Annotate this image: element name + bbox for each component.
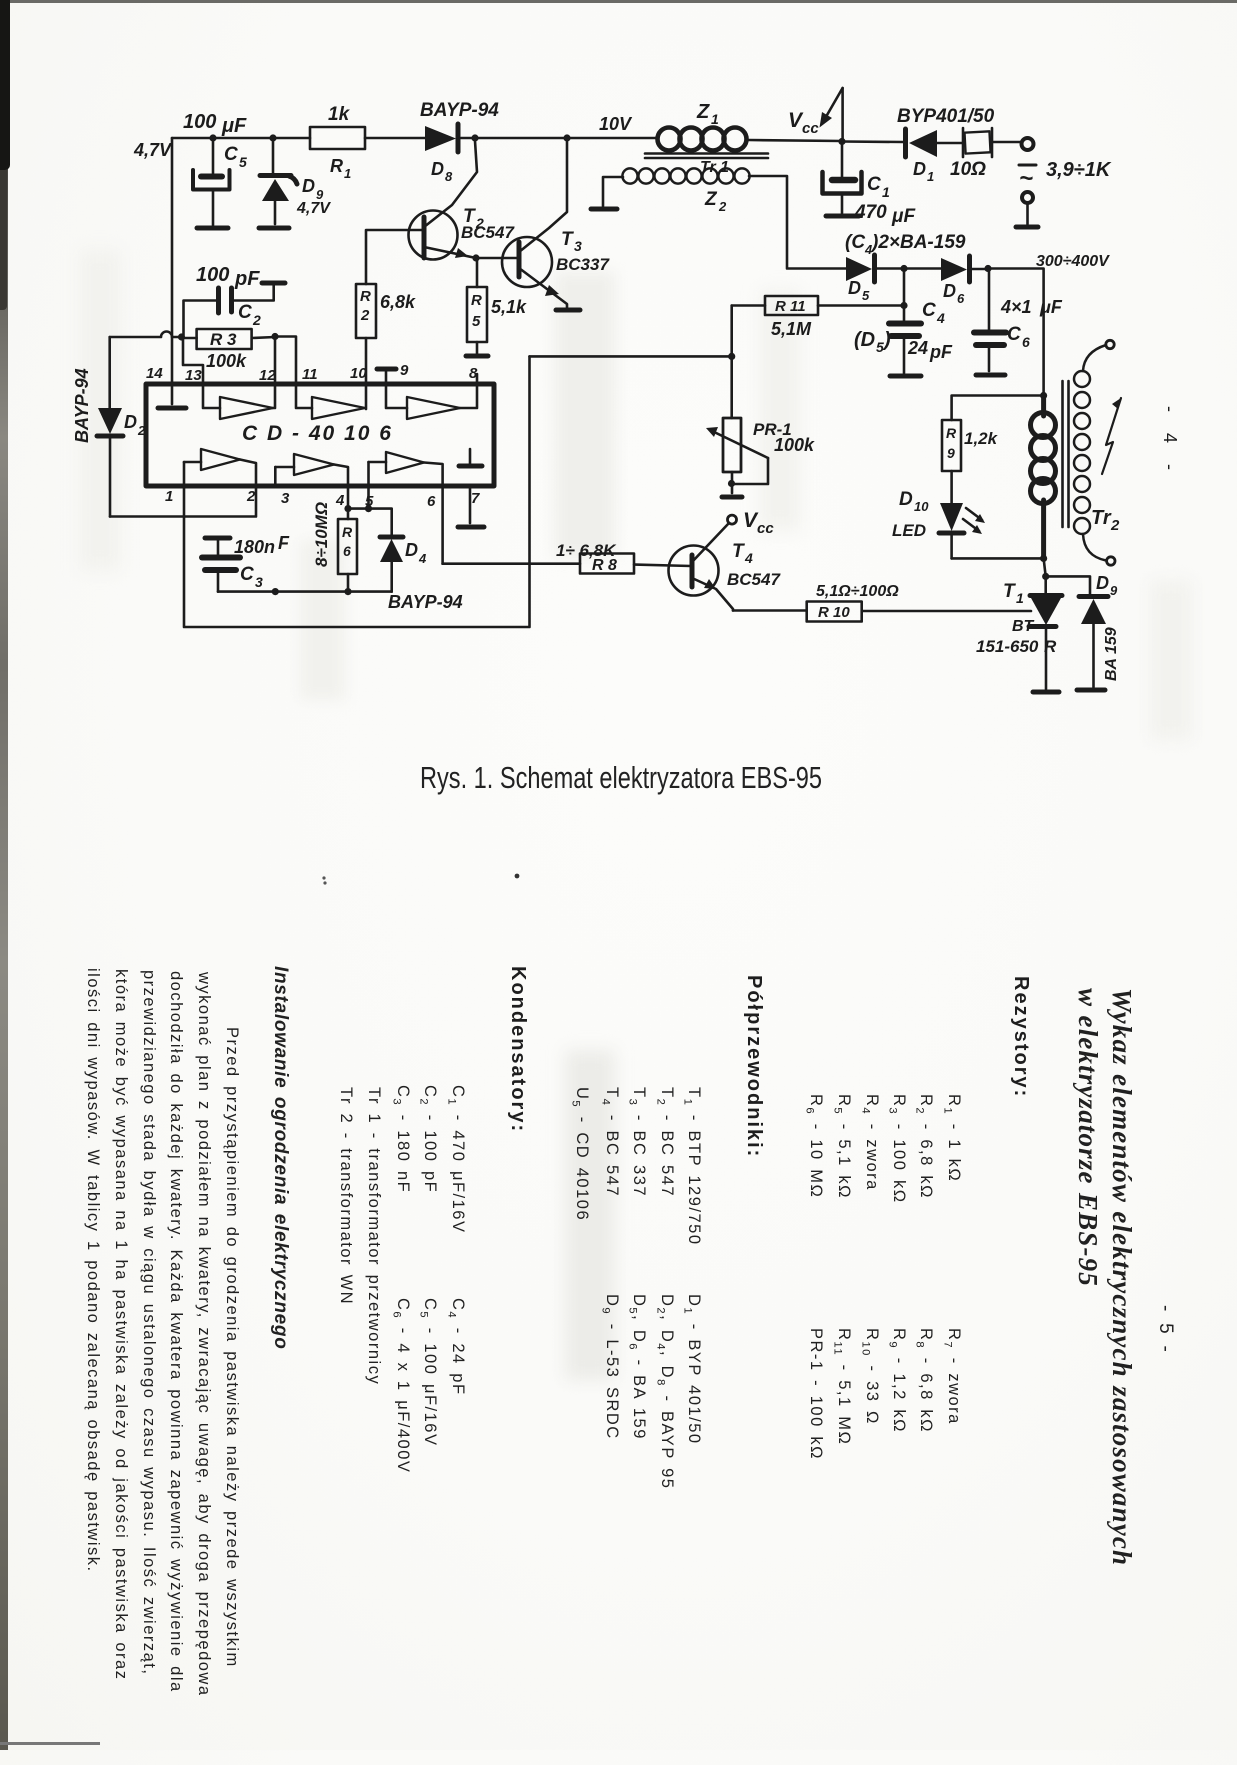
resistor R11 5.1M — [732, 296, 904, 339]
svg-text:C: C — [867, 174, 881, 195]
node D5 cathode — [900, 265, 907, 272]
wire 10V supply rail — [172, 137, 658, 140]
node T2 emitter / T3 base / R5 — [472, 254, 479, 261]
svg-text:5,1k: 5,1k — [491, 297, 527, 317]
resistor R6 8-10M — [338, 486, 357, 592]
wire L1 to Vcc node to D1 — [749, 140, 903, 142]
node R11 left / feedback junction — [728, 353, 735, 360]
svg-text:D: D — [124, 412, 137, 432]
pin 7 internal tie-off — [459, 449, 482, 466]
svg-text:pF: pF — [234, 268, 260, 290]
ground under Z2 — [591, 207, 617, 212]
svg-text:T: T — [732, 541, 745, 562]
svg-text:(C: (C — [845, 232, 865, 253]
ground under PR-1 — [722, 495, 742, 500]
svg-text:3: 3 — [281, 490, 290, 507]
svg-text:2: 2 — [718, 199, 727, 214]
svg-text:180n: 180n — [234, 537, 275, 557]
ground pin-14 internal bar — [158, 406, 186, 411]
D9 value BA 159 (rotated) — [1103, 627, 1120, 681]
node R11/C4 — [900, 302, 907, 309]
inductor Tr1 secondary Z2 — [622, 168, 749, 183]
resistor R9 1.2k — [942, 420, 999, 503]
diode D8 BAYP-94 — [420, 100, 499, 184]
pin 9 stub with tie-off bar — [377, 369, 396, 384]
svg-text:5,1M: 5,1M — [771, 319, 812, 339]
svg-text:R: R — [342, 524, 353, 540]
svg-text:300÷400V: 300÷400V — [1036, 253, 1110, 270]
node output terminal upper — [1022, 138, 1034, 150]
svg-text:Tr: Tr — [1091, 507, 1112, 529]
svg-text:10: 10 — [350, 365, 367, 382]
inverter gate B (pins 11-10) — [296, 384, 365, 419]
svg-text:C: C — [238, 302, 252, 323]
svg-text:2: 2 — [137, 423, 146, 438]
svg-text:Z: Z — [696, 101, 710, 123]
svg-text:1: 1 — [344, 166, 351, 181]
svg-text:D: D — [913, 159, 926, 179]
svg-text:2: 2 — [360, 307, 370, 324]
svg-text:D: D — [899, 489, 913, 510]
node Tr2 primary bottom — [1040, 555, 1047, 562]
svg-text:5: 5 — [239, 154, 247, 170]
svg-text:D: D — [1096, 573, 1109, 593]
resistor R8 1-6.8k — [443, 486, 691, 574]
diode D9 BA159 (freewheel) — [1079, 573, 1118, 687]
node HV terminal upper — [1106, 340, 1114, 348]
inverter gate F (pins 5-6) — [369, 452, 443, 486]
svg-text:BAYP-94: BAYP-94 — [72, 368, 92, 443]
svg-text:BT: BT — [1012, 618, 1035, 635]
svg-text:3: 3 — [255, 574, 263, 590]
svg-text:BA 159: BA 159 — [1103, 627, 1120, 681]
node pin4/R6 top — [344, 505, 351, 512]
diode D9 zener 4.7V — [260, 138, 331, 224]
stray ink dots — [515, 874, 520, 879]
svg-text:C: C — [224, 144, 238, 165]
svg-text:6: 6 — [957, 291, 965, 306]
diode D5 BA-159 — [846, 255, 904, 303]
svg-text:3: 3 — [574, 238, 582, 254]
node output terminal lower — [1022, 192, 1033, 224]
svg-text:1,2k: 1,2k — [964, 429, 999, 448]
ground under pin 7 — [458, 525, 484, 530]
svg-text:10: 10 — [914, 499, 929, 514]
svg-text:cc: cc — [757, 520, 774, 537]
svg-text:T: T — [1003, 581, 1016, 602]
svg-text:8: 8 — [445, 169, 453, 184]
svg-text:R 11: R 11 — [775, 298, 806, 315]
svg-text:2: 2 — [252, 312, 261, 328]
wire D6 to HV corner — [988, 269, 1044, 396]
diode D4 BAYP-94 — [380, 537, 427, 592]
wire Z2 left to ground — [603, 177, 623, 206]
inverter gate A (pins 13-12) — [203, 384, 275, 419]
AC mark — [1019, 165, 1036, 192]
svg-text:1: 1 — [927, 169, 934, 184]
wire VDD left vertical to IC pin 14 — [171, 138, 174, 404]
svg-text:): ) — [882, 329, 891, 351]
ground under T3 emitter — [556, 308, 580, 313]
LED D10 — [892, 489, 985, 558]
svg-text:10V: 10V — [599, 114, 633, 134]
svg-text:R 3: R 3 — [210, 330, 237, 349]
capacitor C3 180nF — [202, 533, 290, 592]
capacitor C1 470uF — [823, 142, 917, 228]
svg-text:D: D — [302, 176, 315, 196]
wire node to IC pin 13 jog — [183, 338, 203, 384]
svg-text:BC337: BC337 — [556, 255, 610, 274]
svg-text:5: 5 — [472, 313, 481, 330]
svg-text:cc: cc — [802, 120, 819, 137]
svg-text:R: R — [360, 288, 371, 305]
faint bleed-through ghosts — [555, 272, 615, 557]
node T3 collector tap — [563, 134, 570, 141]
svg-text:100k: 100k — [206, 351, 247, 371]
wire R3 right to pin 12 — [274, 337, 277, 384]
svg-text:Rys. 1. Schemat elektryzatora: Rys. 1. Schemat elektryzatora EBS-95 — [420, 760, 822, 795]
svg-text:4: 4 — [335, 492, 345, 509]
svg-text:BC547: BC547 — [727, 570, 781, 589]
node Vcc terminal T4 — [728, 509, 775, 537]
svg-text:470: 470 — [854, 202, 887, 223]
svg-text:6: 6 — [343, 543, 351, 559]
svg-text:1: 1 — [882, 184, 890, 200]
wire HV node to R9 — [952, 396, 1044, 421]
svg-text:C: C — [922, 300, 936, 321]
transistor T3 BC337 — [476, 140, 610, 308]
wire pin4-pin5-D4 top — [348, 509, 392, 535]
svg-text:)2×BA-159: )2×BA-159 — [870, 232, 966, 253]
svg-text:T: T — [561, 229, 574, 250]
svg-text:BAYP-94: BAYP-94 — [388, 592, 463, 612]
svg-text:11: 11 — [302, 366, 318, 383]
wire Z2 right down to D5 — [749, 176, 846, 269]
svg-text:R: R — [1044, 637, 1057, 656]
svg-text:9: 9 — [1110, 583, 1118, 598]
node T1 anode junction — [1042, 573, 1049, 580]
svg-text:D: D — [943, 281, 956, 301]
svg-text:~: ~ — [1019, 165, 1033, 192]
page number -4- (rotated) — [1160, 406, 1180, 478]
svg-text:2: 2 — [1110, 517, 1120, 534]
svg-text:6,8k: 6,8k — [380, 292, 416, 312]
wire node down from Tr2 — [1044, 558, 1046, 576]
inverter gate C (pins 9-8) — [386, 384, 477, 419]
ground under C4 — [890, 374, 921, 379]
svg-text:4: 4 — [744, 550, 753, 566]
svg-text:Z: Z — [704, 189, 718, 210]
inverter gate E (pins 3-4) — [275, 454, 348, 486]
svg-text:9: 9 — [947, 445, 955, 461]
svg-text:R: R — [330, 156, 343, 176]
diode D1 BYP401/50 — [897, 106, 995, 184]
svg-text:pF: pF — [929, 342, 953, 362]
pin 7 ground stub — [469, 486, 472, 523]
capacitor C2 100pF — [184, 264, 286, 335]
wire R11 left down to PR-1 — [730, 306, 733, 419]
svg-text:6: 6 — [427, 493, 436, 510]
svg-text:10Ω: 10Ω — [950, 159, 986, 180]
op-amp U5 CD-40106 IC box — [146, 384, 494, 486]
svg-text:100k: 100k — [774, 435, 815, 455]
D2 value label BAYP-94 (rotated) — [72, 368, 92, 443]
svg-text:8: 8 — [469, 365, 478, 382]
wire R3 right to pin 11 — [275, 337, 296, 385]
wire pin 5 stub — [367, 462, 370, 486]
svg-text:D: D — [405, 540, 418, 560]
ground under C6 — [976, 373, 1005, 378]
svg-text:BC547: BC547 — [461, 223, 515, 242]
svg-text:4×1: 4×1 — [1000, 297, 1032, 317]
svg-text:F: F — [278, 533, 290, 553]
svg-text:5: 5 — [876, 339, 884, 355]
svg-text:R: R — [471, 292, 482, 309]
svg-text:D: D — [848, 278, 861, 298]
svg-text:151-650: 151-650 — [976, 637, 1039, 656]
thyristor T1 BT151-650R — [976, 576, 1062, 689]
svg-text:1÷ 6,8K: 1÷ 6,8K — [556, 541, 617, 560]
transformer Tr1 core — [645, 154, 768, 159]
node HV terminal lower — [1107, 557, 1115, 565]
svg-text:2: 2 — [246, 488, 256, 505]
scan edge artifacts — [0, 0, 1237, 3]
svg-text:μF: μF — [1039, 297, 1063, 317]
node R6 bottom — [344, 588, 351, 595]
resistor R3 100k — [182, 329, 276, 371]
diode D2 BAYP-94 — [97, 337, 146, 517]
svg-text:8÷10MΩ: 8÷10MΩ — [312, 502, 331, 567]
wire node to D9 branch — [1046, 576, 1090, 594]
wire LED bottom to node — [952, 557, 1044, 560]
svg-text:1: 1 — [165, 488, 173, 505]
HV lightning arrow — [1102, 398, 1121, 474]
transistor T2 BC547 — [366, 141, 515, 284]
svg-text:D: D — [431, 159, 444, 179]
svg-text:5,1Ω÷100Ω: 5,1Ω÷100Ω — [816, 583, 899, 600]
svg-text:6: 6 — [1022, 334, 1030, 350]
svg-text:7: 7 — [471, 490, 480, 507]
wire R10 to T1 gate — [862, 610, 1031, 613]
ground under T1 — [1033, 690, 1059, 695]
svg-text:- 4 -: - 4 - — [1160, 406, 1180, 478]
svg-text:12: 12 — [259, 367, 276, 384]
svg-text:5: 5 — [862, 288, 870, 303]
node R3 right junction — [271, 333, 278, 340]
resistor R2 6.8k — [356, 284, 416, 409]
resistor R5 5.1k — [466, 258, 527, 384]
node pin5 junction — [365, 505, 372, 512]
svg-text:13: 13 — [185, 367, 202, 384]
transformer Tr2 core — [1063, 381, 1069, 527]
svg-text:C D - 40 10 6: C D - 40 10 6 — [242, 422, 393, 445]
svg-text:1k: 1k — [328, 104, 351, 125]
ground under C5 — [197, 226, 228, 231]
node Vcc (arrow marker) — [788, 88, 843, 142]
ground under D9 — [259, 226, 289, 231]
node D8 cathode junction — [471, 134, 478, 141]
inductor L1 (Tr1 primary Z1) — [658, 128, 747, 151]
potentiometer PR-1 100k — [706, 418, 815, 493]
node HV to R9/LED branch — [1040, 392, 1047, 399]
diode D6 BA-159 — [904, 256, 988, 306]
ground under D9 — [1077, 688, 1105, 693]
svg-text:LED: LED — [892, 521, 926, 540]
D4 value label BAYP-94 — [388, 592, 463, 612]
node D6 cathode — [984, 265, 991, 272]
inverter gate D (pins 1-2) — [184, 449, 256, 486]
wire pin 1 input stub — [183, 462, 186, 486]
wire R3 left to D2 with hop over VDD line — [110, 332, 182, 338]
svg-text:R: R — [946, 425, 957, 441]
node R3 left junction — [178, 333, 185, 340]
fuse 10 ohm — [950, 128, 1020, 180]
svg-text:100: 100 — [183, 111, 216, 133]
svg-text:1: 1 — [711, 111, 719, 127]
caption — [0, 750, 1237, 810]
ground under lower terminal — [1016, 225, 1038, 230]
svg-text:4,7V: 4,7V — [133, 140, 173, 160]
node pin3/C3 — [272, 588, 279, 595]
wire pin5 down to node — [367, 486, 370, 509]
svg-text:μF: μF — [891, 206, 916, 227]
node Vcc junction — [838, 138, 845, 145]
resistor R10 5.1-100ohm — [733, 583, 899, 622]
svg-text:1: 1 — [1016, 590, 1024, 606]
svg-text:BYP401/50: BYP401/50 — [897, 106, 995, 127]
svg-text:9: 9 — [400, 362, 409, 379]
inductor Tr2 secondary HV — [1074, 345, 1106, 561]
svg-text:(D: (D — [854, 329, 875, 351]
wire C3 bottom rail — [218, 590, 392, 593]
svg-text:R 10: R 10 — [818, 604, 850, 621]
svg-text:24: 24 — [907, 338, 928, 358]
svg-text:C: C — [1007, 324, 1021, 345]
capacitor C4 24pF — [889, 269, 953, 374]
svg-text:14: 14 — [146, 365, 163, 382]
wire feedback top to R11 node — [530, 355, 732, 358]
svg-text:4: 4 — [418, 551, 427, 566]
capacitor C5 — [183, 111, 247, 225]
transistor T4 BC547 — [669, 523, 782, 611]
capacitor C6 4x1uF — [974, 269, 1063, 372]
svg-text:100: 100 — [196, 264, 229, 286]
node PR-1 wiper/bottom — [728, 480, 735, 487]
inductor Tr2 primary — [1031, 396, 1056, 559]
svg-text:4,7V: 4,7V — [296, 200, 331, 217]
wire D2 anode to pin 2 — [110, 486, 256, 517]
ground under C1 — [826, 214, 859, 219]
svg-text:4: 4 — [936, 310, 945, 326]
svg-text:BAYP-94: BAYP-94 — [420, 100, 499, 121]
wire pin 1 to feedback loop bottom — [184, 356, 530, 627]
svg-text:C: C — [240, 564, 254, 585]
R6 value 8÷10MΩ (rotated) — [312, 502, 331, 567]
svg-text:3,9÷1K: 3,9÷1K — [1046, 159, 1112, 181]
svg-text:μF: μF — [221, 115, 247, 137]
wire pin 3 stub — [274, 467, 277, 486]
resistor R1 1k — [310, 104, 365, 181]
